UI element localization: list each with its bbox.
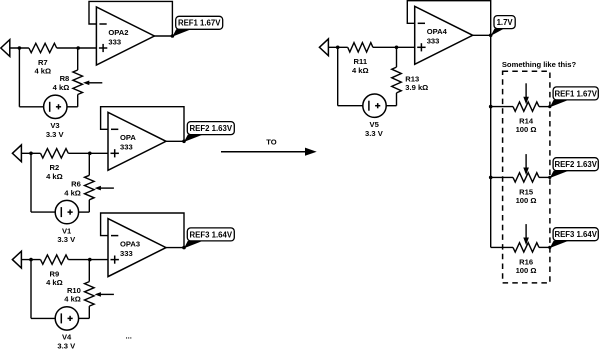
svg-text:REF1 1.67V: REF1 1.67V xyxy=(178,19,221,28)
svg-text:3.9 kΩ: 3.9 kΩ xyxy=(405,83,428,92)
svg-text:V4: V4 xyxy=(62,333,72,342)
svg-text:R9: R9 xyxy=(50,269,60,278)
svg-text:R6: R6 xyxy=(71,180,81,189)
svg-text:333: 333 xyxy=(120,249,133,258)
svg-text:3.3 V: 3.3 V xyxy=(365,129,384,138)
svg-text:R7: R7 xyxy=(38,58,48,67)
svg-text:REF2 1.63V: REF2 1.63V xyxy=(190,124,233,133)
svg-text:4 kΩ: 4 kΩ xyxy=(53,83,70,92)
svg-text:REF1 1.67V: REF1 1.67V xyxy=(554,89,597,98)
svg-text:R10: R10 xyxy=(67,286,81,295)
svg-text:OPA: OPA xyxy=(120,133,136,142)
svg-text:100 Ω: 100 Ω xyxy=(516,125,537,134)
svg-text:333: 333 xyxy=(120,143,133,152)
svg-text:OPA4: OPA4 xyxy=(427,27,448,36)
svg-text:3.3 V: 3.3 V xyxy=(57,235,76,244)
svg-text:TO: TO xyxy=(266,137,277,146)
svg-text:3.3 V: 3.3 V xyxy=(57,342,76,351)
svg-text:3.3 V: 3.3 V xyxy=(46,130,65,139)
svg-text:R11: R11 xyxy=(354,57,368,66)
svg-text:...: ... xyxy=(126,332,132,341)
svg-text:100 Ω: 100 Ω xyxy=(516,196,537,205)
svg-text:OPA2: OPA2 xyxy=(108,28,128,37)
svg-text:4 kΩ: 4 kΩ xyxy=(34,67,51,76)
svg-text:V5: V5 xyxy=(370,120,380,129)
svg-text:V3: V3 xyxy=(50,121,59,130)
svg-text:100 Ω: 100 Ω xyxy=(516,266,537,275)
svg-text:V1: V1 xyxy=(62,226,72,235)
svg-text:4 kΩ: 4 kΩ xyxy=(352,66,369,75)
svg-text:R13: R13 xyxy=(405,74,419,83)
svg-text:333: 333 xyxy=(427,37,440,46)
svg-text:4 kΩ: 4 kΩ xyxy=(46,172,63,181)
svg-text:OPA3: OPA3 xyxy=(120,239,140,248)
svg-text:333: 333 xyxy=(108,37,121,46)
svg-text:REF2 1.63V: REF2 1.63V xyxy=(554,160,597,169)
svg-text:4 kΩ: 4 kΩ xyxy=(64,188,81,197)
svg-text:R2: R2 xyxy=(50,163,60,172)
svg-text:Something like this?: Something like this? xyxy=(502,60,577,69)
svg-text:REF3 1.64V: REF3 1.64V xyxy=(554,230,597,239)
svg-text:4 kΩ: 4 kΩ xyxy=(64,295,81,304)
svg-text:REF3 1.64V: REF3 1.64V xyxy=(190,230,233,239)
svg-text:R8: R8 xyxy=(60,74,70,83)
svg-text:1.7V: 1.7V xyxy=(497,18,514,27)
svg-text:4 kΩ: 4 kΩ xyxy=(46,278,63,287)
